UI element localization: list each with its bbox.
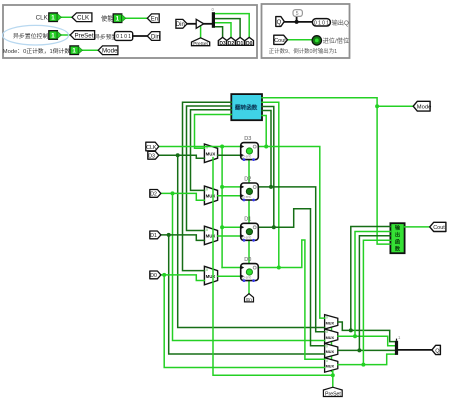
- wire toggle out b3 -> MUX3 upper: [195, 115, 232, 149]
- svg-text:0: 0: [206, 228, 208, 232]
- wire MUX0 out -> FF D0: [218, 275, 241, 277]
- wire M1 out -> splitter port1: [338, 322, 395, 342]
- junction PreSet rail to select riser: [331, 373, 335, 377]
- junction Q0 row x feedback: [277, 266, 281, 270]
- svg-text:MUX: MUX: [326, 321, 335, 325]
- output pin Q value 0101: [312, 19, 330, 27]
- junction M2 out riser: [353, 334, 357, 338]
- svg-text:0 1 0 1: 0 1 0 1: [116, 34, 131, 40]
- wire MUX1 out -> FF D1: [218, 235, 241, 237]
- tunnel D1 (main): [150, 231, 161, 239]
- panel: output display frame: [262, 4, 350, 58]
- wire Q0 result riser to 输出函数: [363, 240, 390, 364]
- input pin En (value 1): [113, 14, 126, 23]
- mux MUX0: [204, 266, 217, 285]
- svg-text:出: 出: [395, 231, 400, 239]
- svg-text:D0: D0: [244, 257, 251, 263]
- svg-text:1: 1: [116, 16, 120, 23]
- junction M3 out riser: [357, 348, 361, 352]
- wire CLK stub FF D0: [222, 267, 241, 269]
- wire toggle out b2 -> MUX2 upper: [191, 110, 232, 191]
- tunnel CLK: [72, 13, 92, 22]
- svg-text:数: 数: [395, 245, 401, 253]
- svg-text:D2: D2: [150, 192, 157, 198]
- junction Q3 row x feedback: [264, 145, 268, 149]
- junction D1 row to rail drop: [167, 233, 171, 237]
- wire splitter bit1 to tunnel D1: [216, 19, 241, 38]
- input pin Din value 0101 (4-bit): [115, 32, 133, 41]
- junction Q2 row x feedback: [269, 185, 273, 189]
- svg-text:输: 输: [395, 224, 401, 232]
- wire FF Q1 row -> staircase -> M3 upper: [258, 209, 324, 346]
- wire CLK stub FF D2: [222, 186, 241, 188]
- wire probe drop: [296, 16, 298, 22]
- wire splitter bit3 to tunnel D3: [216, 27, 223, 38]
- svg-text:Cout: Cout: [274, 38, 286, 44]
- tunnel En (main): [245, 294, 254, 303]
- wire CLK pin to tunnel: [58, 16, 73, 18]
- svg-text:D0: D0: [150, 273, 157, 279]
- svg-text:MUX: MUX: [326, 365, 335, 369]
- svg-text:0: 0: [206, 188, 208, 192]
- svg-text:输出Q: 输出Q: [332, 19, 349, 27]
- wire bottom mux select chain: [332, 371, 334, 375]
- svg-text:Q en0: Q en0: [242, 276, 251, 280]
- wire D0 drop to bottom mux rail h4: [164, 275, 324, 368]
- svg-text:PreSet: PreSet: [193, 41, 208, 47]
- panel: input controls frame: [3, 5, 257, 58]
- svg-text:D3: D3: [219, 41, 226, 47]
- wire Din value pin to tunnel (4-bit black): [133, 35, 148, 37]
- tunnel Cout (source): [274, 35, 288, 44]
- junction D0 row to rail drop: [162, 273, 166, 277]
- wire cyan Q2 in: [262, 111, 271, 187]
- wire CLK row: [159, 146, 241, 148]
- tunnel D3 (main): [148, 151, 159, 159]
- wire D2 tunnel row to MUX2 lower: [161, 193, 205, 200]
- tunnel Cout (main): [430, 222, 446, 231]
- svg-text:En: En: [151, 17, 158, 23]
- tunnel D2 (main): [150, 190, 161, 198]
- svg-text:1: 1: [51, 15, 55, 22]
- flip-flop D1: [241, 223, 259, 241]
- wire PreSet control to buffer: [200, 27, 202, 38]
- mux MUX2: [204, 186, 217, 205]
- tunnel CLK (main): [146, 142, 159, 151]
- svg-text:MUX: MUX: [206, 274, 216, 279]
- svg-text:D2: D2: [244, 176, 251, 182]
- junction CLK trunk at D1 row: [220, 225, 224, 229]
- junction CLK trunk at D2 row: [220, 185, 224, 189]
- svg-text:进位/借位: 进位/借位: [323, 37, 349, 45]
- wire splitter out -> Q tunnel (4-bit black): [398, 349, 432, 351]
- svg-text:PreSet: PreSet: [75, 33, 94, 40]
- wire Mode tunnel stub: [377, 105, 413, 107]
- wire Q1 result riser to 输出函数: [359, 236, 390, 351]
- wire 输出函数 out -> Cout tunnel: [405, 226, 430, 228]
- wire PreSet pin to tunnel: [58, 34, 71, 36]
- wire toggle out b1 -> MUX1 upper: [187, 106, 232, 231]
- mux M3 (bottom stack): [325, 343, 338, 357]
- flip-flop D3: [241, 143, 259, 161]
- svg-text:1: 1: [51, 32, 55, 39]
- wire MUX3 out -> FF D3: [218, 154, 241, 156]
- wire MUX2 out -> FF D2: [218, 195, 241, 197]
- flip-flop D0: [241, 264, 259, 282]
- mux M2 (bottom stack): [325, 329, 338, 343]
- subcircuit 翻转函数 (toggle logic): [231, 94, 262, 120]
- mux M4 (bottom stack): [325, 358, 338, 372]
- svg-text:D2: D2: [228, 41, 235, 47]
- svg-text:0: 0: [326, 359, 328, 363]
- tunnel D3 (top): [218, 37, 227, 47]
- svg-text:Cout: Cout: [433, 225, 445, 231]
- svg-text:D1: D1: [150, 233, 157, 239]
- svg-text:D1: D1: [237, 41, 244, 47]
- tunnel Mode (main): [413, 101, 431, 111]
- splitter S2 (Q bus): [397, 335, 402, 355]
- svg-text:使能: 使能: [101, 14, 114, 23]
- wire En chain D1-D0: [248, 240, 250, 263]
- wire En pin to tunnel: [123, 17, 149, 19]
- tunnel Q (main, bottom): [432, 345, 441, 354]
- input pin CLK (value 1): [49, 13, 62, 22]
- svg-text:0: 0: [206, 268, 208, 272]
- mux MUX1: [204, 226, 217, 245]
- probe (hex display): [293, 10, 302, 18]
- output pin carry (round): [312, 36, 321, 45]
- subcircuit 输出函数 (carry out logic): [390, 223, 404, 253]
- wire D2 drop to bottom mux rail h2: [173, 193, 325, 340]
- svg-text:异步置位控制: 异步置位控制: [13, 32, 48, 40]
- svg-text:Mode：0正计数，1倒计数: Mode：0正计数，1倒计数: [3, 47, 71, 55]
- svg-text:0: 0: [326, 330, 328, 334]
- svg-text:Q: Q: [277, 20, 282, 26]
- input pin PreSet (value 1): [49, 31, 62, 40]
- wire M2 out -> splitter port2: [338, 336, 395, 346]
- wire D3 tunnel row to MUX3 lower: [159, 155, 205, 158]
- tunnel PreSet: [70, 31, 94, 40]
- junction on Q wire: [295, 20, 299, 24]
- tunnel Din (source for splitter): [176, 19, 187, 28]
- svg-text:D3: D3: [244, 136, 251, 142]
- svg-text:0: 0: [326, 344, 328, 348]
- wire En chain D3-D2: [248, 160, 250, 183]
- tunnel PreSet (main, bottom): [323, 387, 342, 397]
- tunnel D1 (top): [236, 37, 245, 47]
- wire cyan top out -> right vertical -> 输出函数 Mode input: [262, 98, 390, 244]
- junction Mode branch: [375, 104, 379, 108]
- tunnel Q (source): [276, 17, 285, 27]
- svg-text:PreSet: PreSet: [325, 392, 341, 398]
- input pin Mode (value 1): [70, 46, 83, 55]
- svg-text:D1: D1: [244, 217, 251, 223]
- wire splitter bit2 to tunnel D2: [216, 23, 231, 38]
- svg-text:MUX: MUX: [206, 152, 216, 157]
- wire D0 tunnel row to MUX0 lower: [161, 275, 205, 281]
- junction CLK trunk at D3 row: [220, 145, 224, 149]
- flip-flop D2: [241, 183, 259, 201]
- tunnel Din (input side): [147, 32, 160, 41]
- tunnel PreSet (buffer control): [192, 38, 210, 47]
- wire cyan Q1 in: [262, 107, 274, 228]
- wire En chain D2-D1: [248, 200, 250, 223]
- wire D1 drop to bottom mux rail h3: [169, 235, 325, 354]
- junction M1 out riser: [349, 328, 353, 332]
- wire select chain (PreSet) to rail h6: [213, 158, 333, 376]
- svg-text:MUX: MUX: [206, 234, 216, 239]
- svg-text:Din: Din: [151, 34, 160, 40]
- wire cyan Q0 in: [262, 102, 279, 267]
- svg-text:CLK: CLK: [146, 145, 157, 151]
- wire buffer to splitter: [204, 23, 213, 25]
- wire select chain under bottom mux stack: [331, 320, 333, 372]
- wire FF Q2 row -> staircase -> M2 upper: [258, 187, 324, 332]
- junction D3 row to rail drop: [176, 153, 180, 157]
- wire Din tunnel to buffer: [187, 23, 196, 25]
- tunnel Mode: [98, 46, 118, 55]
- svg-text:Q en0: Q en0: [242, 155, 251, 159]
- svg-text:CLK: CLK: [77, 15, 90, 22]
- wire toggle out b0 -> MUX0 upper: [183, 102, 232, 270]
- wire splitter bit0 to tunnel D0: [216, 14, 250, 38]
- wire Cout tunnel to carry pin: [287, 39, 312, 41]
- svg-text:CLK: CLK: [36, 15, 49, 22]
- wire En chain D0-tunnel: [248, 281, 250, 294]
- tunnel D2 (top): [227, 37, 236, 47]
- tunnel D0 (main): [150, 271, 161, 279]
- wire FF Q0 row -> staircase -> M4 lower: [258, 240, 324, 359]
- svg-text:函: 函: [395, 238, 400, 246]
- tunnel D0 (top): [245, 37, 254, 47]
- svg-text:5: 5: [296, 11, 299, 17]
- svg-text:MUX: MUX: [206, 194, 216, 199]
- svg-text:MUX: MUX: [326, 336, 335, 340]
- svg-text:D0: D0: [246, 41, 253, 47]
- mux MUX3: [204, 144, 217, 163]
- wire CLK stub FF D1: [222, 226, 241, 228]
- wire D1 tunnel row to MUX1 lower: [161, 235, 205, 241]
- junction D2 row to rail drop: [171, 191, 175, 195]
- wire cyan Q3 in: [262, 116, 266, 147]
- wire PreSet tunnel riser: [332, 375, 334, 388]
- svg-text:0: 0: [326, 316, 328, 320]
- wire M3 out -> splitter port3: [338, 349, 395, 351]
- wire Mode pin to tunnel: [79, 49, 99, 51]
- tunnel En: [147, 14, 159, 23]
- wire M4 out -> splitter port4: [338, 354, 395, 365]
- svg-text:En: En: [246, 297, 252, 302]
- svg-text:1: 1: [72, 48, 76, 55]
- splitter S1: [212, 7, 215, 28]
- svg-text:Mode: Mode: [417, 105, 432, 111]
- svg-text:MUX: MUX: [326, 350, 335, 354]
- svg-text:正计数9、倒计数0时输出为1: 正计数9、倒计数0时输出为1: [269, 47, 337, 55]
- wire Q tunnel to output pin (4-bit black): [284, 21, 312, 23]
- annotation ellipse: [3, 25, 69, 45]
- wire Q3 result riser to 输出函数: [351, 227, 391, 331]
- svg-text:0 1 0 1: 0 1 0 1: [314, 20, 329, 26]
- svg-text:Mode: Mode: [102, 48, 118, 55]
- mux M1 (bottom stack): [325, 315, 338, 329]
- wire CLK trunk vertical: [221, 147, 223, 268]
- wire Q2 result riser to 输出函数: [355, 232, 390, 337]
- svg-text:Q en0: Q en0: [242, 235, 251, 239]
- junction Q1 row x feedback: [272, 225, 276, 229]
- svg-text:Q: Q: [435, 348, 440, 354]
- svg-text:D3: D3: [148, 154, 155, 160]
- controlled buffer U1: [196, 19, 204, 28]
- junction M4 out riser: [361, 363, 365, 367]
- svg-text:Din: Din: [176, 22, 185, 28]
- wire D3 drop to bottom mux rail h1: [178, 155, 325, 327]
- svg-text:翻转函数: 翻转函数: [235, 104, 258, 112]
- wire FF Q3 row -> staircase -> M1 upper: [258, 147, 324, 319]
- svg-text:Q en0: Q en0: [242, 195, 251, 199]
